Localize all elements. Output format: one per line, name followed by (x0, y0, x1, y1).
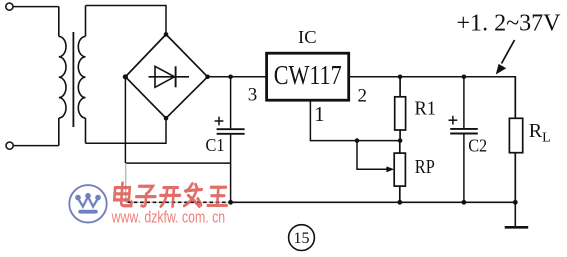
王 (208, 187, 228, 205)
potentiometer RP (394, 141, 405, 203)
wire: IC pin 1 (ADJ) (310, 100, 400, 140)
junction: bridge left vertex (123, 74, 128, 79)
diode symbol inside bridge (149, 66, 190, 87)
svg-text:C1: C1 (206, 135, 225, 155)
transformer T core (72, 32, 74, 127)
polarity + for C1 (215, 117, 224, 126)
resistor RL (509, 77, 522, 203)
watermark logo (blue W circle) (69, 185, 106, 222)
开 (160, 188, 181, 207)
resistor R1 (395, 77, 406, 141)
output arrow (502, 40, 515, 64)
junction: wiper tap (355, 138, 360, 143)
IC U1 box (267, 53, 349, 100)
wire: secondary bottom to bridge AC2 (86, 118, 167, 143)
capacitor C2 (450, 77, 478, 203)
bridge rectifier (diamond) (125, 34, 207, 118)
wire: wiper connection (357, 141, 387, 170)
wire: faded remnant vertical (under watermark) (125, 163, 127, 202)
junction: R1/RP node (398, 138, 403, 143)
polarity + for C2 (449, 116, 458, 125)
ground (505, 202, 529, 227)
junction: bus RP (397, 200, 402, 205)
capacitor C1 (217, 77, 245, 203)
发 (184, 184, 202, 207)
RP wiper arrow (386, 166, 394, 172)
junction: C1 tap on input rail (228, 75, 233, 80)
terminal: AC input top (6, 3, 13, 10)
watermark text 电子开发王 (hand-drawn strokes) (114, 183, 228, 206)
svg-text:IC: IC (298, 27, 317, 47)
junction: bus RL/ground (513, 200, 518, 205)
junction: bus C2 (462, 200, 467, 205)
svg-text:C2: C2 (468, 135, 487, 155)
wire: negative rail from bridge left vertex down (124, 77, 126, 163)
svg-text:R1: R1 (415, 98, 437, 120)
junction: bridge right vertex (205, 75, 210, 80)
bus wire (bottom negative rail) (231, 201, 516, 203)
figure number 15 (289, 225, 315, 251)
svg-text:+1. 2~37V: +1. 2~37V (457, 11, 562, 37)
transformer T secondary winding (78, 6, 85, 144)
wire: faded remnant bus (under watermark) (126, 201, 231, 203)
transformer T primary winding (59, 7, 66, 146)
wire: AC input bottom to primary (13, 145, 58, 147)
wire: negative rail horizontal jog (125, 162, 230, 164)
wire: secondary top to bridge AC1 (86, 6, 167, 35)
junction: bridge bottom vertex (164, 116, 169, 121)
junction: bridge top vertex (164, 32, 169, 37)
junction: R1 tap (398, 75, 403, 80)
wire: IC pin 2 output rail (349, 77, 516, 119)
junction: C2 tap (462, 75, 467, 80)
svg-text:CW117: CW117 (274, 60, 342, 90)
terminal: AC input bottom (6, 142, 13, 149)
svg-text:www. dzkfw. com. cn: www. dzkfw. com. cn (111, 208, 225, 226)
svg-text:3: 3 (248, 84, 258, 105)
wire: AC input top to primary (13, 6, 59, 8)
svg-text:15: 15 (294, 230, 310, 247)
电 (114, 183, 133, 206)
svg-text:1: 1 (314, 102, 325, 126)
junction: bus C1 (228, 200, 233, 205)
子 (136, 186, 156, 206)
svg-text:RP: RP (415, 156, 435, 178)
wire: bridge + output to IC pin 3 (208, 76, 267, 78)
svg-text:2: 2 (358, 85, 368, 106)
wire: dashed bus segment over watermark (128, 201, 231, 203)
